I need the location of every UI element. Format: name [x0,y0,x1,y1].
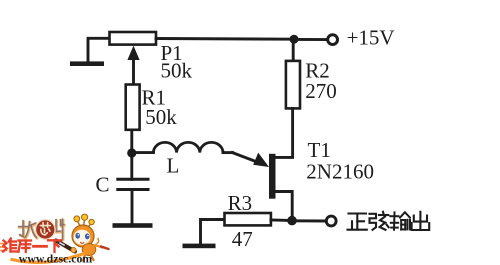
wire: L to T1 emitter [223,151,233,154]
svg-text:47: 47 [232,227,253,251]
ground (below C) [113,223,153,228]
char ku [19,241,32,253]
potentiometer P1 [110,32,157,85]
svg-text:L: L [167,154,180,178]
junction: top rail / R2 [290,35,299,44]
terminal: sine output [326,216,336,226]
watermark: zhao xin pian logo text [19,219,65,240]
char chu [412,212,430,230]
resistor R2 [286,61,300,109]
svg-text:2N2160: 2N2160 [306,160,374,184]
svg-text:50k: 50k [145,105,177,129]
svg-text:C: C [96,173,110,197]
ground (below R3) [183,244,216,249]
wire: R1 to node [130,130,133,153]
wire: output node to output terminal [292,219,325,222]
char wei [3,239,17,252]
svg-text:50k: 50k [161,59,193,83]
wire: junction to R2 [292,39,295,62]
wire: node to inductor L [132,151,154,154]
svg-text:270: 270 [305,79,337,103]
wire: R3 to output node [271,219,288,222]
resistor R3 [225,213,271,225]
sine output label (Chinese: zheng xian shu chu) [348,212,430,230]
char xia [48,240,62,252]
ground (top left) [70,61,104,66]
svg-text:www.dzsc.com: www.dzsc.com [19,251,93,265]
watermark: swoosh [12,254,84,263]
capacitor C [118,179,148,224]
wire: R2 to T1 base-two [275,108,293,157]
wire: P1 to top rail junction [156,37,294,41]
terminal +15V [328,35,338,45]
inductor L [153,142,223,152]
junction: output node [287,216,297,226]
watermark: speed dashes [0,244,7,251]
wire: junction to +15V terminal [294,38,326,41]
char yi [34,245,47,248]
svg-text:T1: T1 [308,138,331,162]
junction: R1 / L / C node [127,148,136,157]
svg-text:+15V: +15V [347,26,395,50]
wire: node to capacitor C [130,153,133,179]
wire: P1 left terminal to ground [88,38,110,63]
svg-text:R3: R3 [228,191,253,215]
transistor T1 (unijunction 2N2160) [233,153,293,217]
char zheng [348,214,367,230]
char xian [370,212,389,230]
char shu [390,212,410,230]
watermark: wei ku yi xia red text [3,239,62,253]
watermark: mascot [56,214,109,260]
wire: R3 left terminal to ground [201,220,225,245]
resistor R1 [126,85,140,130]
